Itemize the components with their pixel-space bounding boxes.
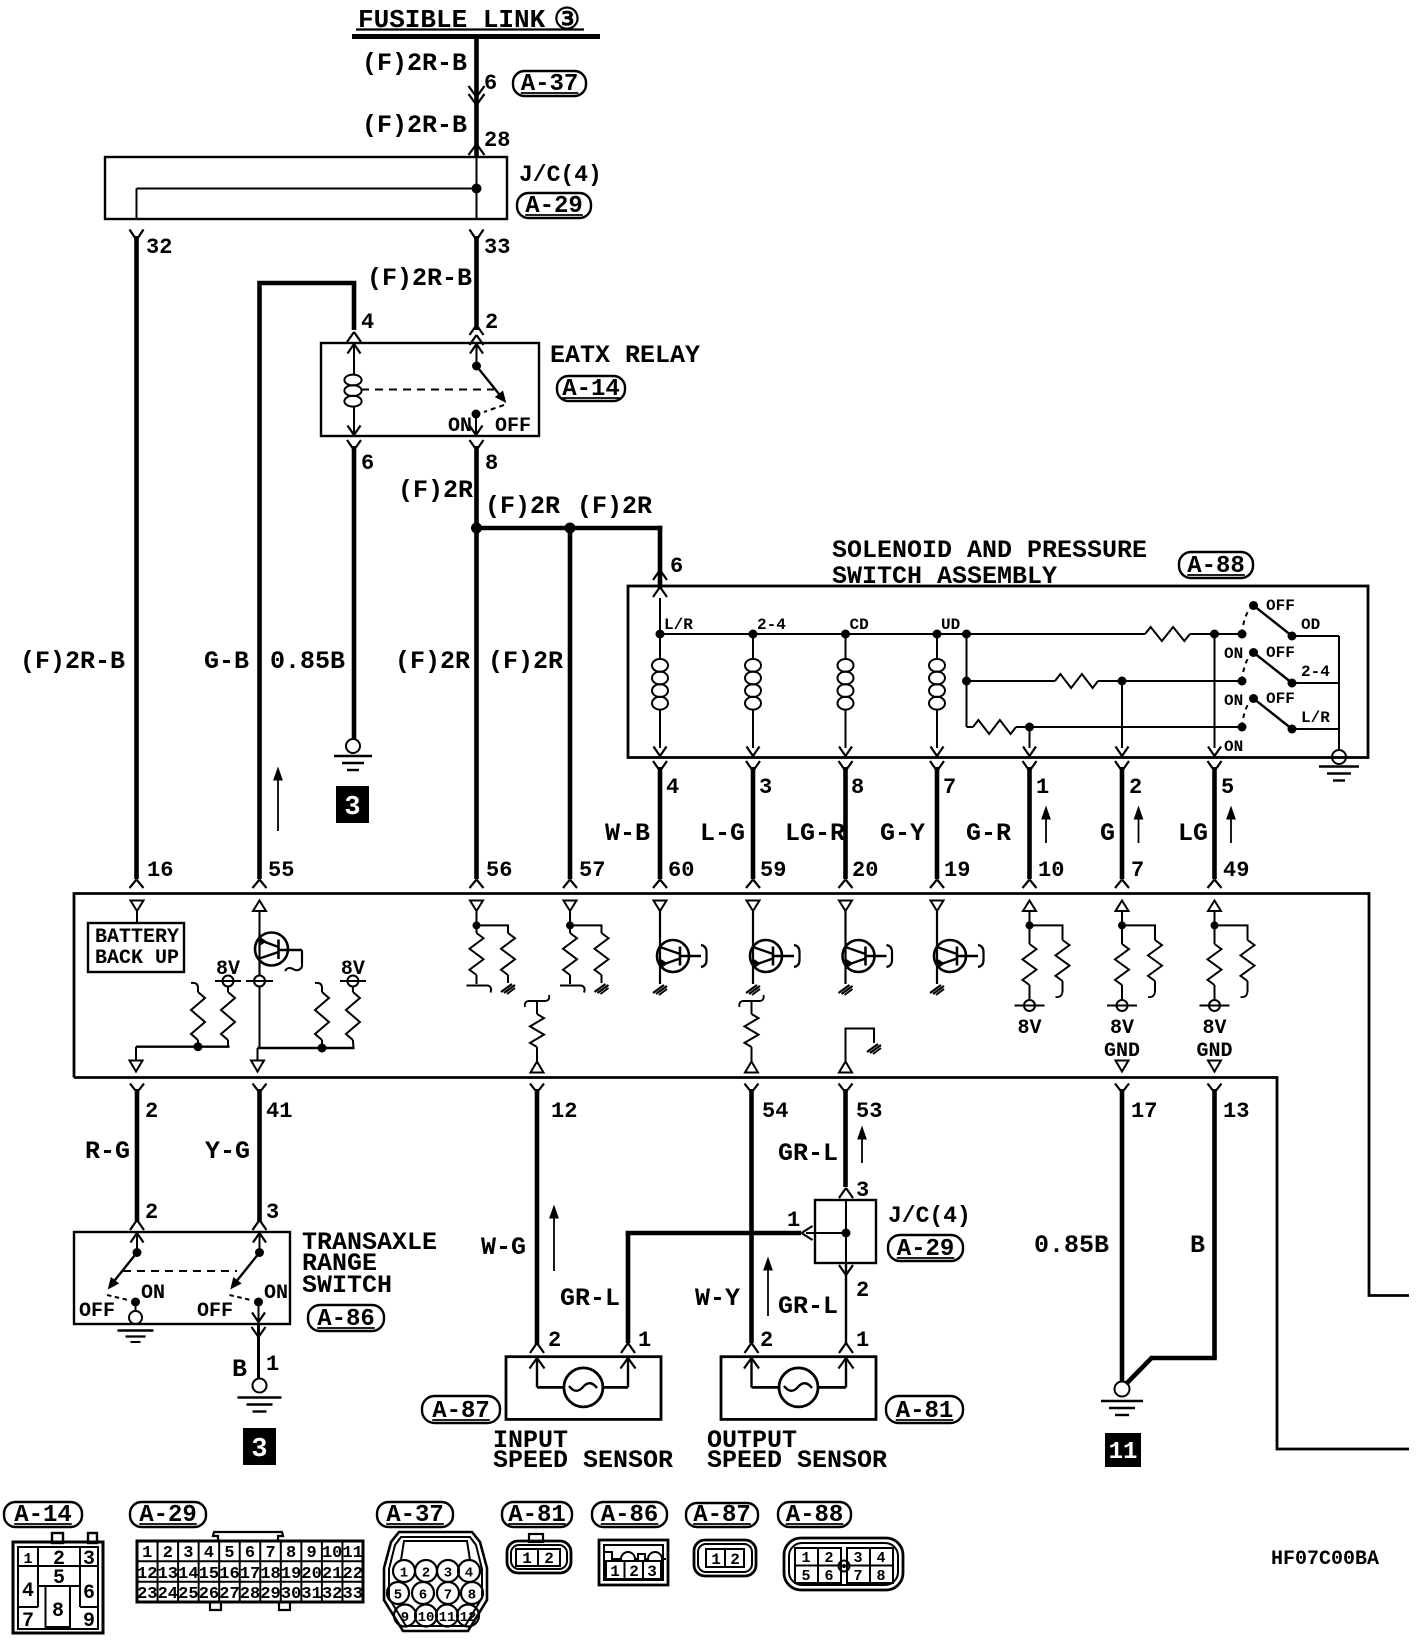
svg-text:W-G: W-G [481, 1233, 526, 1262]
svg-text:A-29: A-29 [525, 193, 583, 220]
svg-text:(F)2R: (F)2R [485, 492, 560, 521]
svg-text:HF07C00BA: HF07C00BA [1271, 1548, 1379, 1571]
svg-text:11: 11 [343, 1544, 363, 1563]
svg-text:ON: ON [141, 1282, 165, 1305]
svg-text:10: 10 [418, 1610, 435, 1626]
svg-text:J/C(4): J/C(4) [519, 162, 602, 188]
svg-text:A-88: A-88 [786, 1502, 844, 1529]
svg-text:8V: 8V [1110, 1017, 1134, 1040]
svg-text:6: 6 [419, 1588, 427, 1604]
svg-text:Y-G: Y-G [205, 1137, 250, 1166]
svg-text:2: 2 [145, 1099, 158, 1124]
svg-text:1: 1 [801, 1550, 810, 1567]
svg-text:4: 4 [204, 1544, 214, 1563]
svg-text:GR-L: GR-L [778, 1292, 838, 1321]
svg-text:ON: ON [1224, 692, 1243, 710]
svg-text:18: 18 [260, 1565, 280, 1584]
svg-text:8: 8 [851, 775, 864, 800]
svg-text:A-29: A-29 [897, 1236, 955, 1263]
svg-text:23: 23 [137, 1585, 157, 1604]
svg-text:1: 1 [610, 1563, 620, 1581]
svg-text:6: 6 [824, 1568, 833, 1585]
svg-text:G-Y: G-Y [880, 819, 925, 848]
svg-text:1: 1 [23, 1551, 32, 1568]
svg-text:6: 6 [361, 451, 374, 476]
svg-text:20: 20 [852, 858, 878, 883]
svg-text:20: 20 [301, 1565, 321, 1584]
svg-text:BACK UP: BACK UP [95, 947, 179, 970]
svg-text:G-B: G-B [204, 647, 249, 676]
svg-text:L-G: L-G [700, 819, 745, 848]
svg-text:12: 12 [460, 1610, 477, 1626]
svg-text:22: 22 [343, 1565, 363, 1584]
svg-text:SOLENOID AND PRESSURE: SOLENOID AND PRESSURE [832, 536, 1147, 565]
svg-text:8: 8 [876, 1568, 885, 1585]
svg-text:2-4: 2-4 [1301, 663, 1330, 681]
svg-text:57: 57 [579, 858, 605, 883]
svg-text:W-B: W-B [605, 819, 650, 848]
svg-text:OFF: OFF [1266, 644, 1295, 662]
svg-text:13: 13 [158, 1565, 178, 1584]
svg-text:J/C(4): J/C(4) [888, 1203, 971, 1229]
svg-text:5: 5 [224, 1544, 234, 1563]
svg-text:(F)2R: (F)2R [395, 647, 470, 676]
svg-text:3: 3 [344, 793, 360, 823]
svg-text:7: 7 [1131, 858, 1144, 883]
svg-text:G: G [1100, 819, 1115, 848]
svg-text:2: 2 [163, 1544, 173, 1563]
svg-text:31: 31 [301, 1585, 321, 1604]
svg-text:2: 2 [856, 1278, 869, 1303]
svg-text:17: 17 [1131, 1099, 1157, 1124]
svg-text:③: ③ [554, 5, 581, 39]
svg-text:(F)2R: (F)2R [488, 647, 563, 676]
svg-text:33: 33 [484, 235, 510, 260]
svg-text:3: 3 [251, 1435, 267, 1465]
svg-text:19: 19 [944, 858, 970, 883]
svg-text:13: 13 [1223, 1099, 1249, 1124]
svg-text:1: 1 [400, 1566, 408, 1582]
svg-text:32: 32 [322, 1585, 342, 1604]
svg-text:8: 8 [468, 1588, 476, 1604]
svg-text:11: 11 [1109, 1439, 1138, 1466]
svg-text:12: 12 [551, 1099, 577, 1124]
svg-text:7: 7 [22, 1610, 34, 1633]
svg-text:A-81: A-81 [508, 1502, 566, 1529]
svg-text:ON: ON [448, 415, 472, 438]
svg-text:A-14: A-14 [562, 376, 620, 403]
svg-text:CD: CD [850, 616, 869, 634]
svg-text:25: 25 [178, 1585, 198, 1604]
svg-text:2: 2 [730, 1551, 740, 1569]
svg-text:ON: ON [1224, 738, 1243, 756]
svg-text:4: 4 [22, 1580, 34, 1603]
svg-text:ON: ON [1224, 645, 1243, 663]
svg-text:26: 26 [199, 1585, 219, 1604]
svg-text:7: 7 [444, 1588, 452, 1604]
svg-text:0.85B: 0.85B [270, 647, 345, 676]
svg-text:19: 19 [281, 1565, 301, 1584]
svg-text:24: 24 [158, 1585, 178, 1604]
svg-text:2: 2 [485, 310, 498, 335]
svg-text:7: 7 [853, 1568, 862, 1585]
svg-text:(F)2R-B: (F)2R-B [362, 49, 467, 78]
svg-text:32: 32 [146, 235, 172, 260]
svg-text:8V: 8V [1017, 1017, 1041, 1040]
svg-text:OFF: OFF [197, 1300, 233, 1323]
svg-text:LG: LG [1178, 819, 1208, 848]
svg-text:ON: ON [264, 1282, 288, 1305]
svg-text:OFF: OFF [79, 1300, 115, 1323]
svg-text:4: 4 [465, 1566, 473, 1582]
svg-text:(F)2R: (F)2R [577, 492, 652, 521]
svg-text:A-37: A-37 [386, 1502, 444, 1529]
svg-text:A-37: A-37 [521, 71, 579, 98]
svg-text:0.85B: 0.85B [1034, 1231, 1109, 1260]
svg-text:SPEED SENSOR: SPEED SENSOR [707, 1446, 887, 1475]
svg-text:3: 3 [444, 1566, 452, 1582]
svg-text:3: 3 [759, 775, 772, 800]
svg-text:5: 5 [394, 1588, 402, 1604]
svg-text:3: 3 [647, 1563, 657, 1581]
svg-text:A-87: A-87 [432, 1398, 490, 1425]
svg-text:11: 11 [439, 1610, 456, 1626]
svg-text:7: 7 [943, 775, 956, 800]
svg-text:L/R: L/R [1301, 709, 1330, 727]
svg-text:59: 59 [760, 858, 786, 883]
svg-text:5: 5 [1221, 775, 1234, 800]
svg-text:5: 5 [801, 1568, 810, 1585]
svg-text:SPEED SENSOR: SPEED SENSOR [493, 1446, 673, 1475]
svg-text:16: 16 [219, 1565, 239, 1584]
svg-text:8: 8 [485, 451, 498, 476]
svg-text:UD: UD [941, 616, 960, 634]
svg-text:33: 33 [343, 1585, 363, 1604]
svg-text:9: 9 [83, 1610, 95, 1633]
svg-text:4: 4 [876, 1550, 885, 1567]
svg-text:OFF: OFF [1266, 690, 1295, 708]
svg-text:A-14: A-14 [14, 1502, 72, 1529]
svg-text:GR-L: GR-L [560, 1284, 620, 1313]
svg-text:3: 3 [83, 1548, 95, 1571]
svg-text:53: 53 [856, 1099, 882, 1124]
svg-text:8: 8 [52, 1600, 64, 1623]
svg-text:15: 15 [199, 1565, 219, 1584]
svg-text:2: 2 [422, 1566, 430, 1582]
svg-text:(F)2R-B: (F)2R-B [20, 647, 125, 676]
svg-text:8V: 8V [216, 958, 240, 981]
svg-text:A-81: A-81 [896, 1398, 954, 1425]
svg-text:4: 4 [361, 310, 374, 335]
svg-text:(F)2R-B: (F)2R-B [367, 264, 472, 293]
svg-text:1: 1 [1036, 775, 1049, 800]
svg-text:49: 49 [1223, 858, 1249, 883]
svg-text:17: 17 [240, 1565, 260, 1584]
svg-text:OD: OD [1301, 616, 1320, 634]
svg-text:BATTERY: BATTERY [95, 926, 179, 949]
svg-text:28: 28 [240, 1585, 260, 1604]
svg-text:1: 1 [142, 1544, 152, 1563]
svg-text:41: 41 [266, 1099, 292, 1124]
svg-text:12: 12 [137, 1565, 157, 1584]
svg-text:29: 29 [260, 1585, 280, 1604]
svg-text:2: 2 [629, 1563, 639, 1581]
svg-text:56: 56 [486, 858, 512, 883]
svg-text:3: 3 [853, 1550, 862, 1567]
svg-text:2: 2 [548, 1328, 561, 1353]
svg-text:3: 3 [266, 1200, 279, 1225]
svg-text:9: 9 [307, 1544, 317, 1563]
svg-text:14: 14 [178, 1565, 198, 1584]
svg-text:2: 2 [824, 1550, 833, 1567]
svg-text:1: 1 [711, 1551, 721, 1569]
svg-text:10: 10 [322, 1544, 342, 1563]
svg-text:1: 1 [787, 1208, 800, 1233]
svg-text:8V: 8V [1202, 1017, 1226, 1040]
svg-text:60: 60 [668, 858, 694, 883]
svg-text:2-4: 2-4 [757, 616, 786, 634]
svg-text:16: 16 [147, 858, 173, 883]
svg-text:A-86: A-86 [317, 1306, 375, 1333]
svg-text:5: 5 [53, 1567, 65, 1590]
svg-text:8: 8 [286, 1544, 296, 1563]
svg-text:6: 6 [484, 71, 497, 96]
svg-text:B: B [232, 1355, 247, 1384]
svg-text:10: 10 [1038, 858, 1064, 883]
svg-text:9: 9 [401, 1610, 409, 1626]
svg-text:6: 6 [245, 1544, 255, 1563]
svg-text:6: 6 [670, 554, 683, 579]
svg-text:LG-R: LG-R [785, 819, 845, 848]
svg-text:3: 3 [183, 1544, 193, 1563]
svg-text:7: 7 [265, 1544, 275, 1563]
svg-text:L/R: L/R [664, 616, 693, 634]
svg-text:(F)2R-B: (F)2R-B [362, 111, 467, 140]
svg-text:EATX RELAY: EATX RELAY [550, 341, 700, 370]
svg-text:2: 2 [760, 1328, 773, 1353]
svg-text:R-G: R-G [85, 1137, 130, 1166]
svg-text:1: 1 [638, 1328, 651, 1353]
svg-text:6: 6 [83, 1582, 95, 1605]
svg-text:30: 30 [281, 1585, 301, 1604]
svg-text:A-29: A-29 [139, 1502, 197, 1529]
svg-text:A-87: A-87 [693, 1502, 751, 1529]
svg-text:27: 27 [219, 1585, 239, 1604]
svg-text:1: 1 [266, 1352, 279, 1377]
svg-text:2: 2 [1129, 775, 1142, 800]
svg-text:55: 55 [268, 858, 294, 883]
svg-text:21: 21 [322, 1565, 342, 1584]
svg-text:W-Y: W-Y [695, 1284, 740, 1313]
svg-text:A-88: A-88 [1187, 553, 1245, 580]
svg-text:OFF: OFF [495, 415, 531, 438]
svg-text:(F)2R: (F)2R [398, 476, 473, 505]
svg-text:GR-L: GR-L [778, 1139, 838, 1168]
svg-text:SWITCH: SWITCH [302, 1271, 392, 1300]
svg-text:OFF: OFF [1266, 597, 1295, 615]
svg-text:G-R: G-R [966, 819, 1011, 848]
svg-text:8V: 8V [341, 958, 365, 981]
svg-text:28: 28 [484, 128, 510, 153]
svg-text:A-86: A-86 [601, 1502, 659, 1529]
svg-text:1: 1 [856, 1328, 869, 1353]
svg-text:B: B [1190, 1231, 1205, 1260]
svg-text:1: 1 [522, 1550, 532, 1568]
svg-text:2: 2 [145, 1200, 158, 1225]
svg-text:4: 4 [666, 775, 679, 800]
svg-text:54: 54 [762, 1099, 788, 1124]
svg-text:2: 2 [544, 1550, 554, 1568]
